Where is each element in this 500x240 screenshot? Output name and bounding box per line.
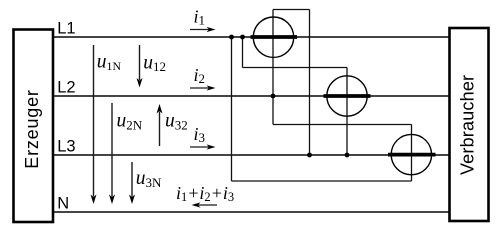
- wire W1 top loop down to L3: [309, 10, 311, 156]
- svg-text:L2: L2: [57, 78, 75, 96]
- junction dot L1-b: [240, 35, 245, 40]
- voltage arrow u3N: [129, 162, 162, 204]
- wire from L2 junction down: [272, 96, 274, 125]
- svg-text:Erzeuger: Erzeuger: [22, 89, 42, 168]
- current arrow i1: [190, 7, 216, 33]
- junction dot L3-b: [345, 153, 350, 158]
- wire from L1 node B down: [242, 37, 244, 68]
- svg-text:L3: L3: [57, 137, 75, 155]
- wire horizontal to W2 voltage top: [243, 67, 348, 69]
- neutral sum current arrow i1+i2+i3: [176, 183, 234, 208]
- load box Verbraucher: [450, 28, 489, 221]
- wire W1 top loop horizontal: [273, 9, 310, 11]
- voltage arrow u2N: [109, 103, 143, 204]
- wire horizontal to W3 voltage top: [273, 124, 412, 126]
- svg-text:Verbraucher: Verbraucher: [458, 75, 478, 175]
- wire L3: [53, 154, 450, 156]
- voltage arrow u32 (points up): [157, 104, 188, 146]
- wire W1 voltage path vertical: [272, 10, 274, 97]
- wire from L1 node A down to bottom rail: [231, 37, 233, 181]
- wire W3 voltage path vertical: [411, 125, 413, 182]
- svg-text:L1: L1: [57, 19, 75, 37]
- wire bottom rail to L1: [232, 180, 412, 182]
- voltage arrow u12: [137, 45, 167, 88]
- svg-text:N: N: [57, 194, 69, 212]
- wire N: [53, 211, 450, 213]
- wattmeter P3: [388, 134, 436, 174]
- junction dot L1-a: [229, 35, 234, 40]
- wattmeter P2: [324, 76, 371, 116]
- current arrow i3: [190, 124, 216, 150]
- voltage arrow u1N: [91, 45, 122, 204]
- wire L2: [53, 95, 450, 97]
- wire L1: [53, 36, 450, 38]
- generator box Erzeuger: [14, 30, 54, 223]
- junction dot L2: [271, 94, 276, 99]
- junction dot L3-a: [307, 153, 312, 158]
- wattmeter P1: [251, 17, 298, 57]
- current arrow i2: [190, 65, 216, 91]
- wire W2 voltage path vertical: [346, 68, 348, 156]
